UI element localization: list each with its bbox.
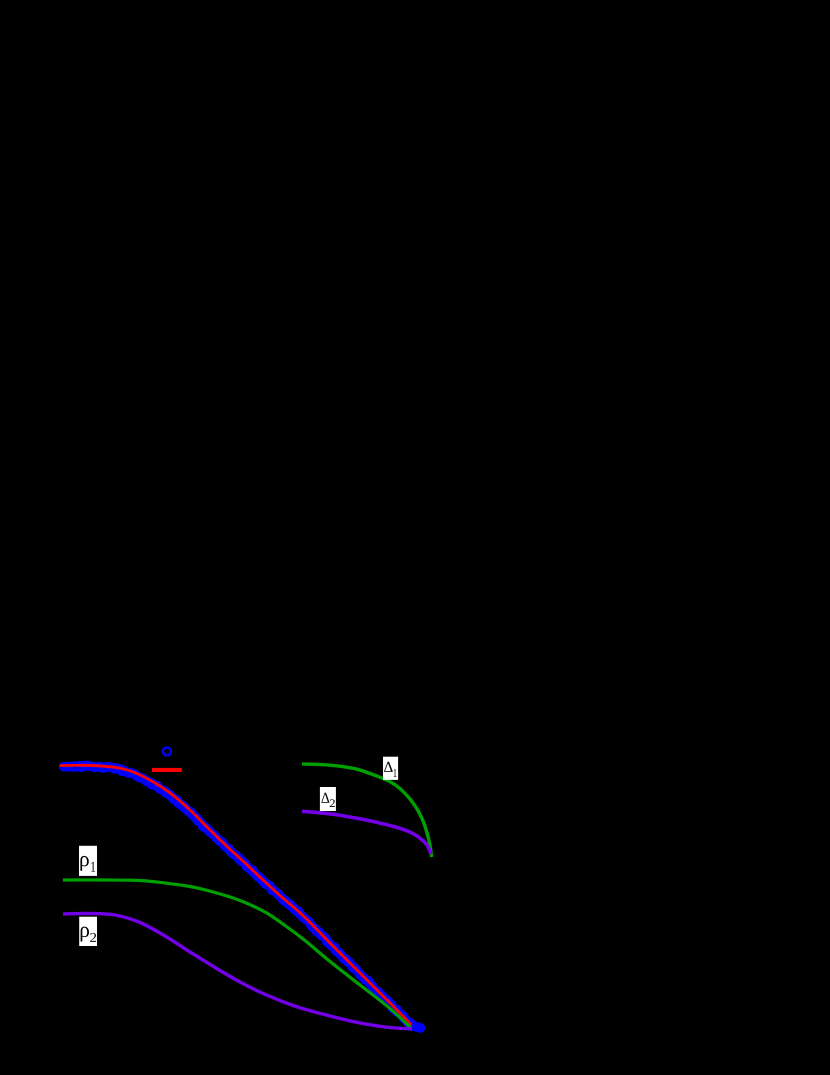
label rho2 white box xyxy=(79,917,97,946)
inset green Delta1 curve xyxy=(302,764,432,857)
red fit line over data xyxy=(60,765,412,1025)
label Delta2 white box xyxy=(320,787,336,811)
label rho1 white box xyxy=(79,846,97,876)
label Delta1 text xyxy=(384,762,393,772)
legend: red dash xyxy=(152,768,182,772)
green rho1 curve xyxy=(63,880,411,1028)
label rho2 text xyxy=(81,927,89,942)
legend: blue circle symbol xyxy=(163,747,171,755)
blue data markers: rho_s experimental curve xyxy=(60,762,424,1032)
label Delta1 white box xyxy=(383,757,398,780)
inset purple Delta2 curve xyxy=(302,811,431,854)
label Delta2 text xyxy=(321,793,329,803)
label rho1 text xyxy=(80,856,88,871)
purple rho2 curve xyxy=(63,913,412,1029)
